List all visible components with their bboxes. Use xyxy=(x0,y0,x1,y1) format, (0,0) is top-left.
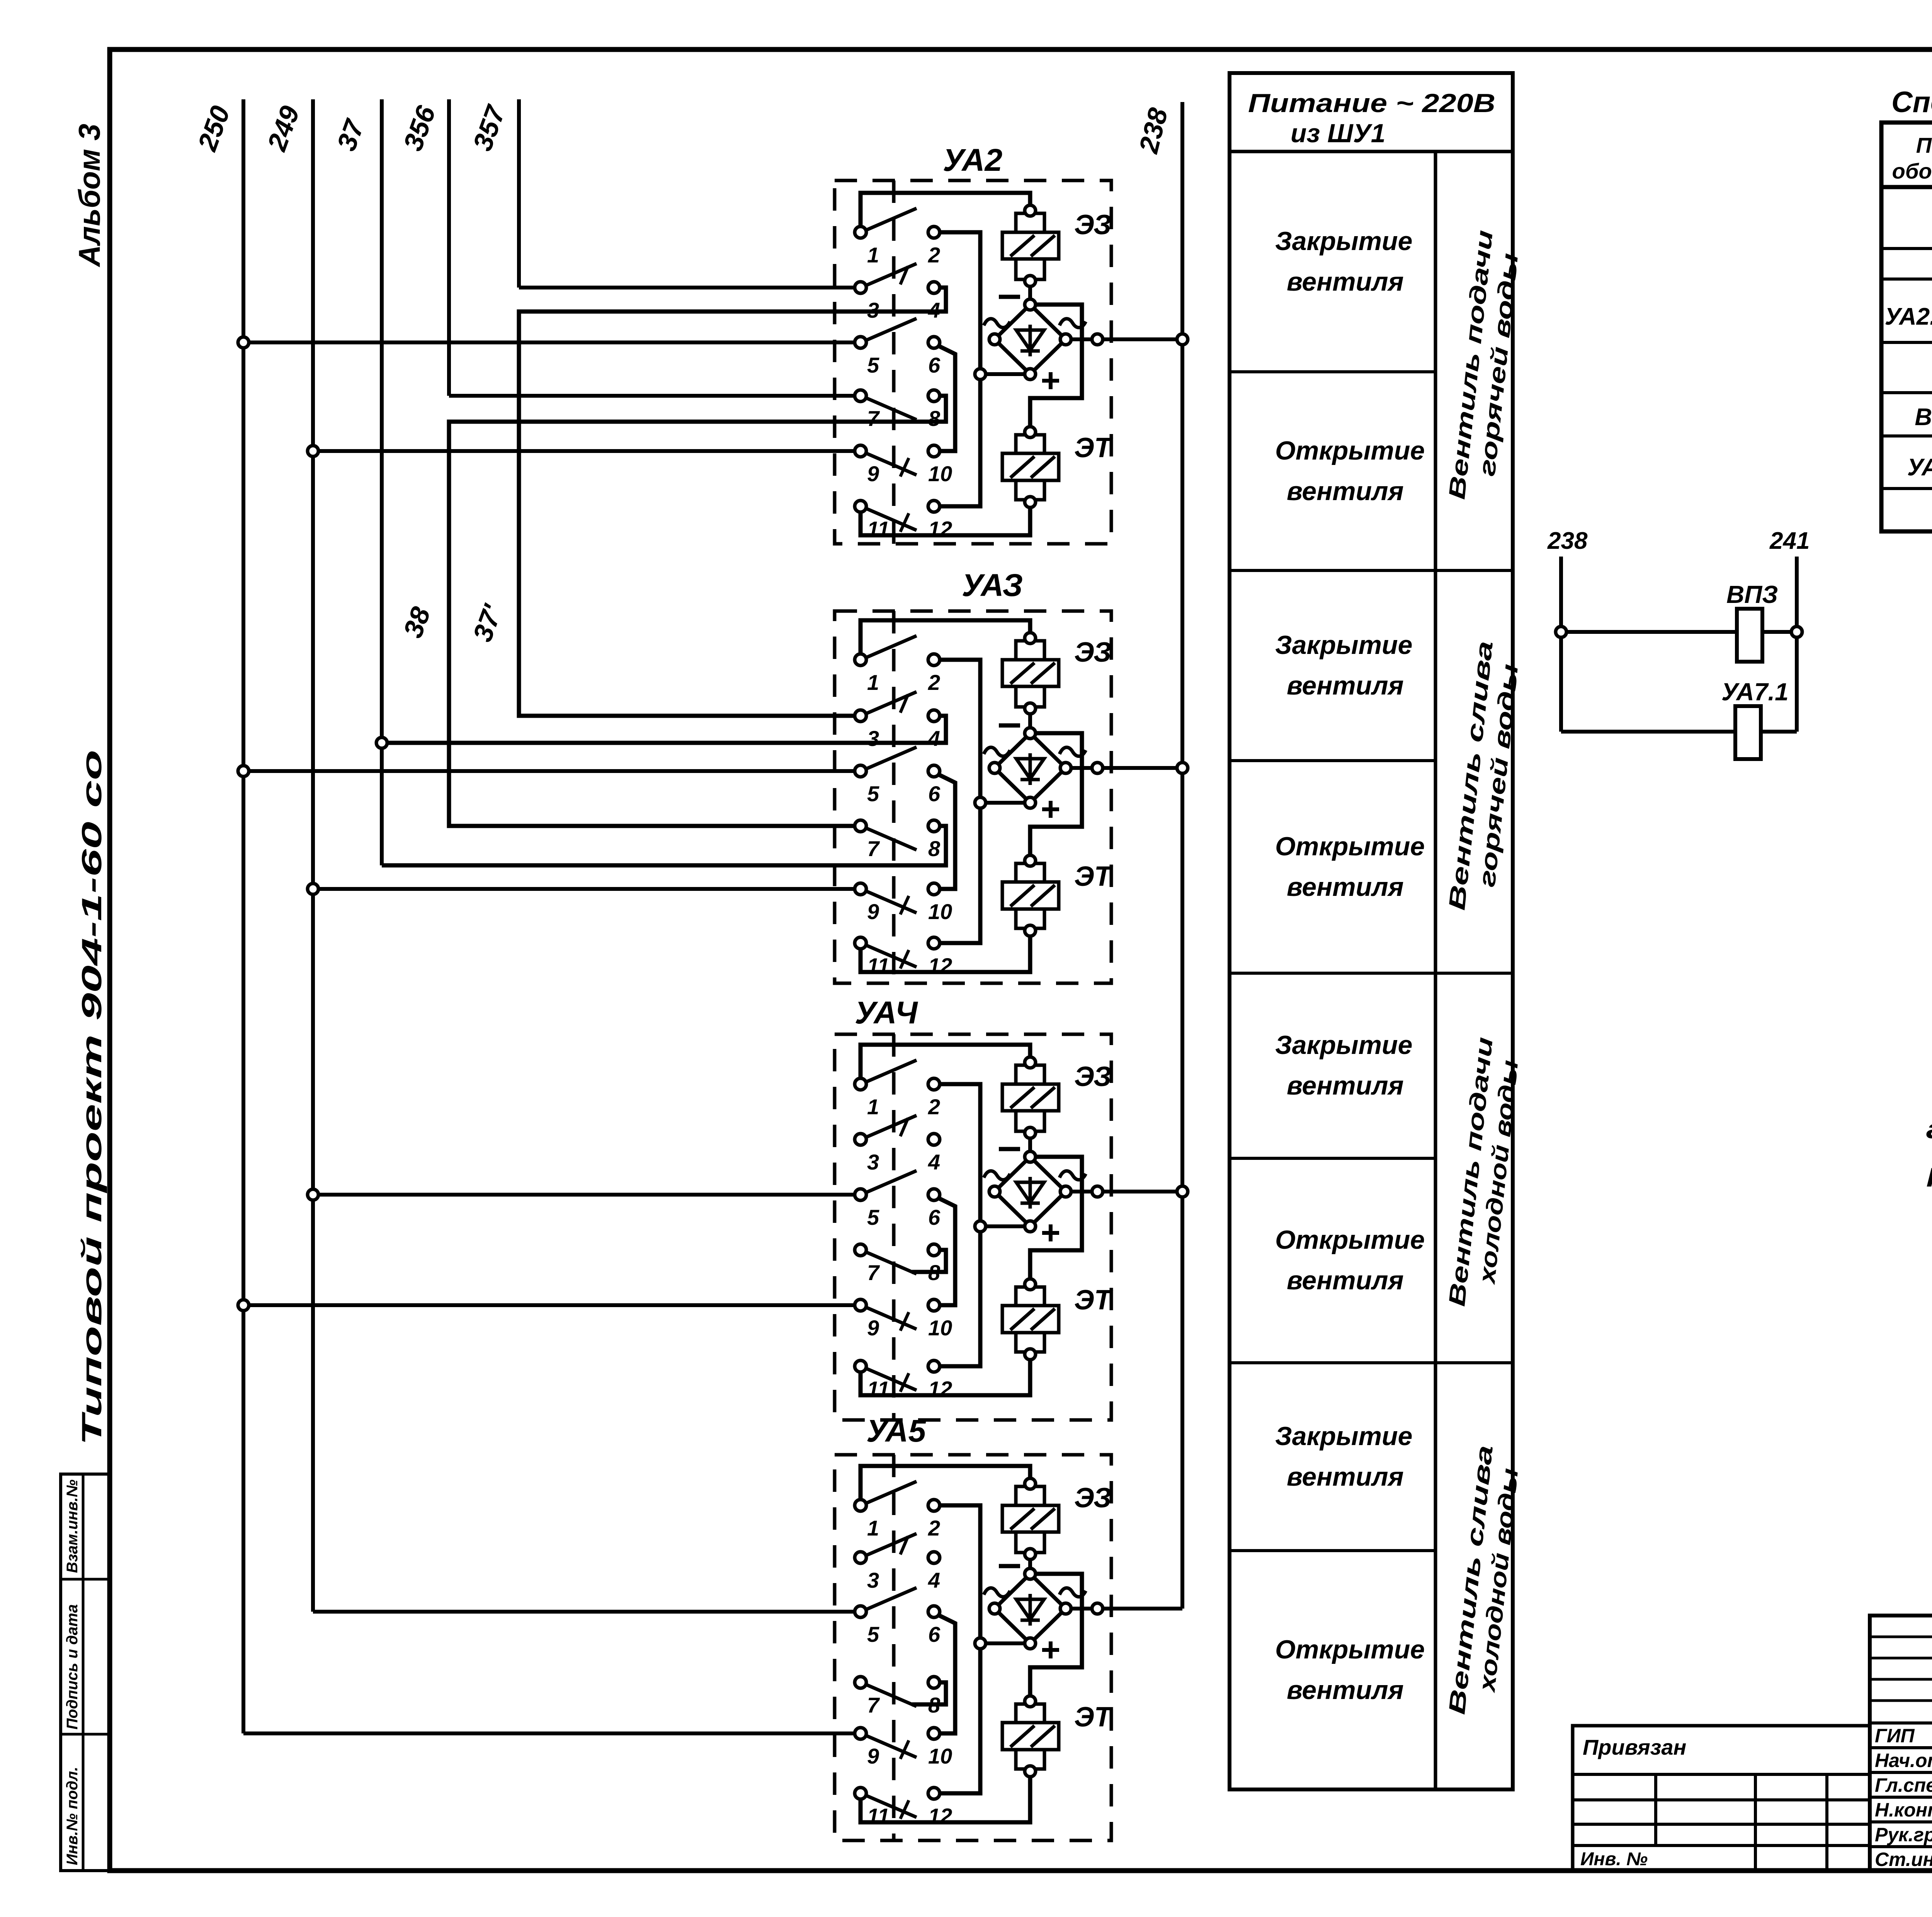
svg-text:Закрытие: Закрытие xyxy=(1275,226,1412,256)
contact pins 11-12 (УА5) xyxy=(855,1788,952,1828)
junction on bus 238 (УА3) xyxy=(1177,763,1188,773)
svg-text:УА2: УА2 xyxy=(943,143,1002,178)
wire bridge plus to common УА3 xyxy=(980,801,1030,805)
svg-text:10: 10 xyxy=(928,1316,952,1340)
svg-text:7: 7 xyxy=(867,836,880,861)
svg-text:Рук.гр.: Рук.гр. xyxy=(1875,1824,1932,1845)
svg-text:11: 11 xyxy=(867,1377,889,1401)
contact pins 9-10 (УА5) xyxy=(855,1728,952,1768)
svg-text:ЭЗ: ЭЗ xyxy=(1074,1483,1111,1514)
svg-text:УАЧ: УАЧ xyxy=(855,995,918,1030)
svg-text:ГИП: ГИП xyxy=(1875,1725,1915,1747)
junction on bus 238 (УА2) xyxy=(1177,334,1188,345)
spec row ВПЗ xyxy=(1915,401,1932,431)
valve function table xyxy=(1230,73,1513,1789)
svg-text:вентиля: вентиля xyxy=(1287,1266,1404,1295)
contact pins 11-12 (УА3) xyxy=(855,937,952,978)
contact pins 7-8 (УА2) xyxy=(855,390,940,431)
spec row УА2...УА5 xyxy=(1885,300,1932,330)
contact pins 9-10 (УА3) xyxy=(855,883,952,924)
svg-text:9: 9 xyxy=(867,899,879,924)
cell text: Закрытие вентиля xyxy=(1275,1422,1412,1491)
wire pin1 to coil ЭЗ УА5 xyxy=(861,1466,1030,1505)
junction on bus 249 at УА2 xyxy=(308,446,318,456)
internal dashed boundary УА4 xyxy=(892,1034,896,1420)
svg-text:10: 10 xyxy=(928,461,952,486)
wire pin8 stub УА4 xyxy=(912,1250,946,1272)
svg-text:УА7.1: УА7.1 xyxy=(1721,678,1789,706)
wire pin6 to pin10 УА2 xyxy=(934,346,955,451)
junction on bus 238 (УА4) xyxy=(1177,1186,1188,1197)
svg-text:3: 3 xyxy=(867,1568,879,1592)
dashed enclosure УА4 xyxy=(835,1034,1111,1420)
node 241 drop wire xyxy=(1795,557,1799,732)
svg-text:12: 12 xyxy=(928,517,952,541)
svg-text:вентиля: вентиля xyxy=(1287,1071,1404,1100)
svg-text:Закрытие: Закрытие xyxy=(1275,1422,1412,1451)
svg-text:5: 5 xyxy=(867,781,879,806)
rectifier bridge (УА4) xyxy=(989,1151,1071,1232)
dashed enclosure УА2 xyxy=(835,180,1111,544)
svg-text:Закрытие: Закрытие xyxy=(1275,630,1412,660)
cell text: Закрытие вентиля xyxy=(1275,1030,1412,1100)
output node circle (УА3) xyxy=(1092,763,1103,773)
bus 37 xyxy=(382,99,946,865)
wire bridge output to bus 238 УА5 xyxy=(1066,1607,1182,1611)
contact pins 1-2 (УА2) xyxy=(855,208,940,267)
wire pin6 to pin10 УА4 xyxy=(934,1198,955,1305)
contact pins 1-2 (УА5) xyxy=(855,1481,940,1540)
wire pin1 to coil ЭЗ УА4 xyxy=(861,1045,1030,1084)
svg-text:Инв.№ подл.: Инв.№ подл. xyxy=(64,1767,81,1865)
wire 249 to УА4 pin5 xyxy=(313,1193,855,1197)
svg-text:5: 5 xyxy=(867,1205,879,1229)
svg-text:6: 6 xyxy=(928,781,940,806)
svg-text:ЭТ: ЭТ xyxy=(1074,1702,1114,1733)
solenoid coil ЭТ (УА2) xyxy=(1002,427,1059,507)
valve coil УА7.1 xyxy=(1735,706,1761,759)
svg-text:Альбом 3: Альбом 3 xyxy=(72,124,106,267)
svg-text:Закрытие: Закрытие xyxy=(1275,1030,1412,1060)
rectifier bridge (УА2) xyxy=(989,299,1071,380)
contact pins 3-4 (УА2) xyxy=(855,264,940,322)
solenoid coil ЭТ (УА5) xyxy=(1002,1696,1059,1777)
svg-text:3: 3 xyxy=(867,1150,879,1174)
svg-text:ЭЗ: ЭЗ xyxy=(1074,209,1111,240)
node 238 drop wire xyxy=(1559,557,1563,732)
wire pins 2-12 common УА5 xyxy=(934,1505,980,1793)
svg-text:2: 2 xyxy=(928,1095,940,1119)
svg-text:5: 5 xyxy=(867,1622,879,1646)
svg-text:8: 8 xyxy=(928,406,940,431)
wire 249 to УА2 pin9 xyxy=(313,449,855,453)
contact pins 3-4 (УА4) xyxy=(855,1115,940,1174)
contact pins 1-2 (УА3) xyxy=(855,636,940,695)
contact pins 11-12 (УА4) xyxy=(855,1360,952,1401)
svg-text:8: 8 xyxy=(928,1260,940,1285)
wire bridge minus bypass to coil ЭТ УА5 xyxy=(1030,1574,1082,1701)
svg-text:10: 10 xyxy=(928,899,952,924)
contact pins 7-8 (УА4) xyxy=(855,1244,940,1285)
wire bridge output to bus 238 УА2 xyxy=(1066,337,1182,341)
wire pin1 to coil ЭЗ УА3 xyxy=(861,620,1030,660)
rotated cell text: Вентиль подачи горячей воды xyxy=(1444,229,1523,501)
table header: Питание ~220В из ШУ1 xyxy=(1248,89,1495,148)
svg-text:вентиля: вентиля xyxy=(1287,671,1404,700)
svg-text:вентиля: вентиля xyxy=(1287,267,1404,296)
svg-text:9: 9 xyxy=(867,461,879,486)
internal dashed boundary УА5 xyxy=(892,1455,896,1840)
svg-text:Подпись и дата: Подпись и дата xyxy=(64,1604,81,1730)
svg-text:6: 6 xyxy=(928,1622,940,1646)
wire coil ЭЗ to bridge minus УА4 xyxy=(1028,1133,1032,1157)
signature row Н.контр. Золотарева xyxy=(1875,1799,1932,1821)
svg-text:9: 9 xyxy=(867,1316,879,1340)
solenoid coil ЭЗ (УА2) xyxy=(1002,205,1059,286)
rectifier bridge (УА5) xyxy=(989,1568,1071,1649)
bus 238 xyxy=(1180,102,1184,1609)
bus 249 xyxy=(313,99,855,1612)
svg-text:Поз.: Поз. xyxy=(1916,133,1932,157)
wire bridge plus to common УА2 xyxy=(980,372,1030,376)
contact pins 9-10 (УА2) xyxy=(855,445,952,486)
svg-text:4: 4 xyxy=(928,1568,940,1592)
svg-text:238: 238 xyxy=(1547,528,1588,554)
svg-text:Спецификация принципиальной: Спецификация принципиальной электрическо… xyxy=(1891,86,1932,119)
svg-text:2: 2 xyxy=(928,243,940,267)
wire coil ЭЗ to bridge minus УА3 xyxy=(1028,708,1032,733)
svg-text:241: 241 xyxy=(1769,528,1810,554)
junction at 241/ВПЗ xyxy=(1791,627,1802,637)
wire bridge minus bypass to coil ЭТ УА2 xyxy=(1030,305,1082,432)
dashed enclosure УА3 xyxy=(835,611,1111,983)
dashed enclosure УА5 xyxy=(835,1455,1111,1840)
svg-text:Открытие: Открытие xyxy=(1275,1225,1425,1255)
wire bridge plus to common УА5 xyxy=(980,1641,1030,1645)
svg-text:УА7.1: УА7.1 xyxy=(1907,454,1932,481)
svg-text:7: 7 xyxy=(867,1260,880,1285)
wire 238 to УА7.1 xyxy=(1561,730,1735,734)
wire pin8 stub УА5 xyxy=(912,1682,946,1704)
wire 250 to УА3 pin5 xyxy=(243,769,855,773)
junction on bus 249 at УА4 xyxy=(308,1189,318,1200)
polarity marks (УА4) xyxy=(984,1149,1086,1241)
svg-text:ЭТ: ЭТ xyxy=(1074,861,1114,892)
wire 37' (УА2 pin4 to УА3 pin3) xyxy=(519,288,946,716)
svg-text:8: 8 xyxy=(928,836,940,861)
svg-text:ЭТ: ЭТ xyxy=(1074,1285,1114,1316)
svg-text:вентиля: вентиля xyxy=(1287,477,1404,506)
specification table xyxy=(1881,123,1932,531)
svg-text:11: 11 xyxy=(867,953,889,978)
wire pins 2-12 common УА4 xyxy=(934,1084,980,1366)
solenoid coil ЭЗ (УА3) xyxy=(1002,633,1059,714)
contact pins 5-6 (УА4) xyxy=(855,1171,940,1229)
wire coil ЭТ to pin11 УА4 xyxy=(861,1354,1030,1395)
rotated cell text: Вентиль слива холодной воды xyxy=(1444,1444,1523,1716)
junction plus node (УА2) xyxy=(975,369,986,380)
svg-text:Открытие: Открытие xyxy=(1275,1635,1425,1664)
wire 250 to УА4 pin9 xyxy=(243,1303,855,1307)
svg-text:ВПЗ: ВПЗ xyxy=(1726,581,1778,608)
junction on bus 250 at УА4 xyxy=(238,1300,249,1311)
svg-text:9: 9 xyxy=(867,1744,879,1768)
svg-text:вентиля: вентиля xyxy=(1287,1462,1404,1491)
polarity marks (УА3) xyxy=(984,725,1086,818)
svg-text:Гл.спец.: Гл.спец. xyxy=(1875,1774,1932,1796)
signature row Рук.гр. Седых xyxy=(1875,1823,1932,1846)
wire 249 to УА3 pin9 xyxy=(313,887,855,891)
cell text: Закрытие вентиля xyxy=(1275,630,1412,700)
svg-text:1: 1 xyxy=(867,243,879,267)
svg-text:из ШУ1: из ШУ1 xyxy=(1291,119,1386,148)
wire УА7.1 to 241 xyxy=(1761,730,1797,734)
svg-text:3: 3 xyxy=(867,726,879,751)
solenoid coil ЭЗ (УА5) xyxy=(1002,1478,1059,1559)
svg-text:4: 4 xyxy=(928,298,940,322)
rotated cell text: Вентиль подачи холодной воды xyxy=(1444,1036,1523,1308)
junction on bus 37 xyxy=(376,737,387,748)
wire bridge plus to common УА4 xyxy=(980,1224,1030,1228)
svg-text:вентиля: вентиля xyxy=(1287,1675,1404,1705)
svg-text:1: 1 xyxy=(867,1516,879,1540)
svg-text:1: 1 xyxy=(867,670,879,695)
wire pins 2-12 common УА2 xyxy=(934,232,980,506)
bus 250 xyxy=(243,99,855,1733)
wire ВПЗ to 241 xyxy=(1762,630,1797,634)
svg-text:агрегата N1, для компрессор: агрегата N1, для компрессорных агрегатов xyxy=(1926,1114,1932,1144)
signature row Нач.отд. Христофоров xyxy=(1875,1749,1932,1772)
svg-text:Инв. №: Инв. № xyxy=(1580,1849,1648,1869)
svg-text:Н.контр.: Н.контр. xyxy=(1875,1799,1932,1821)
internal dashed boundary УА2 xyxy=(892,180,896,544)
junction plus node (УА5) xyxy=(975,1638,986,1649)
spec row УА7.1 xyxy=(1907,451,1932,481)
svg-text:Открытие: Открытие xyxy=(1275,436,1425,465)
wire 250 to УА2 pin5 xyxy=(243,340,855,344)
svg-text:6: 6 xyxy=(928,1205,940,1229)
svg-text:УА5: УА5 xyxy=(866,1413,927,1449)
solenoid coil ЭТ (УА4) xyxy=(1002,1279,1059,1360)
wire 238 to ВПЗ xyxy=(1561,630,1737,634)
wire bridge minus bypass to coil ЭТ УА4 xyxy=(1030,1157,1082,1284)
svg-text:6: 6 xyxy=(928,353,940,377)
wire bridge output to bus 238 УА3 xyxy=(1066,766,1182,770)
signature row Ст.инж. Таболина xyxy=(1875,1848,1932,1871)
svg-text:Ст.инж.: Ст.инж. xyxy=(1875,1849,1932,1870)
svg-text:ЭЗ: ЭЗ xyxy=(1074,1061,1111,1092)
junction on bus 250 at УА2 xyxy=(238,337,249,348)
contact pins 3-4 (УА5) xyxy=(855,1534,940,1592)
wire 37 to УА3 pin4 xyxy=(382,716,946,743)
valve coil ВПЗ xyxy=(1737,609,1762,662)
rotated cell text: Вентиль слива горячей воды xyxy=(1444,640,1523,911)
junction on bus 250 at УА3 xyxy=(238,766,249,776)
svg-text:12: 12 xyxy=(928,1377,952,1401)
title block: Привязан box xyxy=(1573,1726,1870,1871)
wire pins 2-12 common УА3 xyxy=(934,660,980,943)
internal dashed boundary УА3 xyxy=(892,611,896,983)
svg-text:10: 10 xyxy=(928,1744,952,1768)
svg-text:3: 3 xyxy=(867,298,879,322)
contact pins 7-8 (УА5) xyxy=(855,1677,940,1717)
contact pins 5-6 (УА3) xyxy=(855,747,940,806)
contact pins 1-2 (УА4) xyxy=(855,1060,940,1119)
svg-text:ЭТ: ЭТ xyxy=(1074,432,1114,463)
spec header: Поз. обознач. xyxy=(1892,133,1932,183)
svg-text:1: 1 xyxy=(867,1095,879,1119)
svg-text:УАЗ: УАЗ xyxy=(962,568,1023,603)
svg-text:ВПЗ: ВПЗ xyxy=(1915,404,1932,431)
signature row Гл.спец. Фукс xyxy=(1875,1774,1932,1796)
contact pins 5-6 (УА5) xyxy=(855,1588,940,1646)
bus 357 xyxy=(519,99,855,288)
wire coil ЭТ to pin11 УА3 xyxy=(861,931,1030,972)
wire coil ЭТ to pin11 УА2 xyxy=(861,502,1030,535)
wire 38 (УА2 pin8 to УА3 pin7) xyxy=(449,396,946,826)
junction plus node (УА3) xyxy=(975,797,986,808)
contact pins 9-10 (УА4) xyxy=(855,1299,952,1340)
wire bridge minus bypass to coil ЭТ УА3 xyxy=(1030,733,1082,861)
svg-text:5: 5 xyxy=(867,353,879,377)
svg-text:4: 4 xyxy=(928,726,940,751)
signature table xyxy=(1870,1616,1932,1871)
output node circle (УА2) xyxy=(1092,334,1103,345)
svg-text:Нач.отд.: Нач.отд. xyxy=(1875,1750,1932,1771)
svg-text:2: 2 xyxy=(928,670,940,695)
wire bridge output to bus 238 УА4 xyxy=(1066,1190,1182,1193)
signature row ГИП Леонов xyxy=(1875,1725,1932,1747)
contact pins 3-4 (УА3) xyxy=(855,692,940,751)
wire pin6 to pin10 УА3 xyxy=(934,775,955,889)
svg-text:Типовой проект 904-1-60 со: Типовой проект 904-1-60 со xyxy=(77,750,107,1445)
svg-text:Привязан: Привязан xyxy=(1583,1735,1686,1759)
cell text: Открытие вентиля xyxy=(1275,436,1425,506)
svg-text:8: 8 xyxy=(928,1693,940,1717)
svg-text:обознач.: обознач. xyxy=(1892,159,1932,183)
output node circle (УА4) xyxy=(1092,1186,1103,1197)
wire coil ЭЗ to bridge minus УА5 xyxy=(1028,1554,1032,1574)
svg-text:7: 7 xyxy=(867,1693,880,1717)
svg-text:ЭЗ: ЭЗ xyxy=(1074,637,1111,668)
svg-text:7: 7 xyxy=(867,406,880,431)
svg-text:11: 11 xyxy=(867,1804,889,1828)
cell text: Открытие вентиля xyxy=(1275,832,1425,902)
svg-text:Взам.инв.№: Взам.инв.№ xyxy=(64,1479,81,1573)
rectifier bridge (УА3) xyxy=(989,728,1071,808)
cell text: Открытие вентиля xyxy=(1275,1635,1425,1705)
contact pins 7-8 (УА3) xyxy=(855,820,940,861)
wire coil ЭТ to pin11 УА5 xyxy=(861,1771,1030,1822)
output node circle (УА5) xyxy=(1092,1603,1103,1614)
wire pin1 to coil ЭЗ УА2 xyxy=(861,193,1030,232)
svg-text:вентиля: вентиля xyxy=(1287,872,1404,902)
contact pins 11-12 (УА2) xyxy=(855,501,952,541)
side stamp strip (Взам.инв.№ / Подпись и дата / Инв.№ подл.) xyxy=(61,1474,110,1871)
svg-text:УА2...УА5: УА2...УА5 xyxy=(1885,303,1932,330)
junction plus node (УА4) xyxy=(975,1221,986,1232)
wire pin6 to pin10 УА5 xyxy=(934,1615,955,1733)
wire coil ЭЗ to bridge minus УА2 xyxy=(1028,281,1032,305)
svg-text:11: 11 xyxy=(867,517,889,541)
polarity marks (УА2) xyxy=(984,297,1086,389)
junction at 238/ВПЗ xyxy=(1556,627,1566,637)
svg-text:4: 4 xyxy=(928,1150,940,1174)
svg-text:12: 12 xyxy=(928,953,952,978)
bus 356 xyxy=(449,99,855,396)
junction on bus 249 at УА3 xyxy=(308,884,318,894)
contact pins 5-6 (УА2) xyxy=(855,318,940,377)
polarity marks (УА5) xyxy=(984,1566,1086,1658)
svg-text:12: 12 xyxy=(928,1804,952,1828)
cell text: Закрытие вентиля xyxy=(1275,226,1412,296)
svg-text:2: 2 xyxy=(928,1516,940,1540)
svg-text:Питание ~ 220В: Питание ~ 220В xyxy=(1248,89,1495,118)
svg-text:Открытие: Открытие xyxy=(1275,832,1425,861)
solenoid coil ЭЗ (УА4) xyxy=(1002,1057,1059,1138)
cell text: Открытие вентиля xyxy=(1275,1225,1425,1295)
svg-text:N2 ... N6(4) схема аналоги: N2 ... N6(4) схема аналогична. xyxy=(1926,1162,1932,1192)
solenoid coil ЭТ (УА3) xyxy=(1002,855,1059,936)
